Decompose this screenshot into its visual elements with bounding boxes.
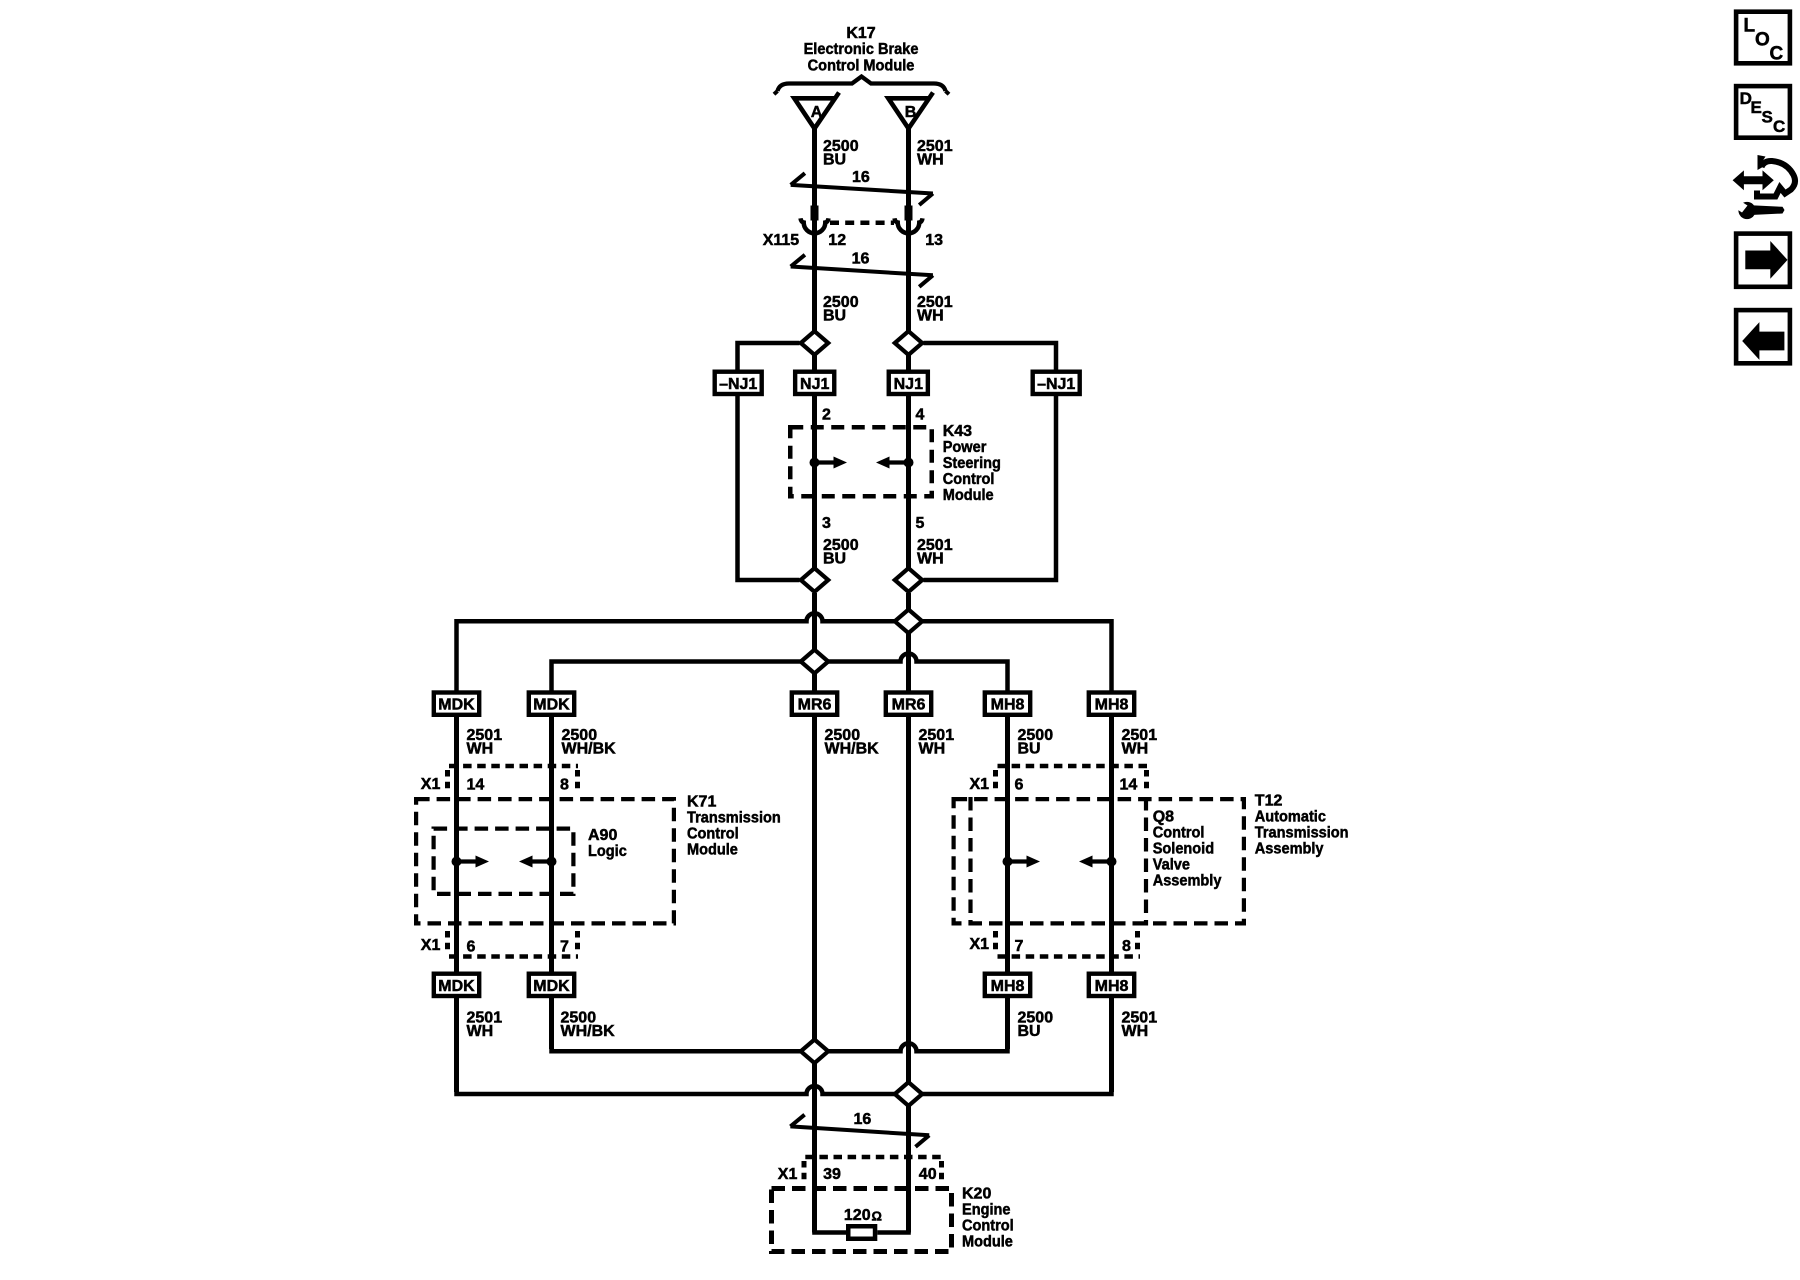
splice diamond 2500 upper (801, 331, 828, 355)
sidebar next-page arrow button (1736, 234, 1790, 287)
svg-text:4: 4 (916, 407, 925, 424)
svg-text:WH: WH (1122, 1023, 1149, 1040)
splice pack box -NJ1 (right) (1033, 372, 1080, 394)
wire 2501 from splice down through bus A to MR6 (906, 593, 911, 691)
svg-text:6: 6 (467, 939, 476, 956)
svg-text:Ω: Ω (872, 1209, 882, 1224)
svg-text:MDK: MDK (438, 697, 475, 714)
wire 2501 WH through NJ1 to K43 pin 4 (906, 331, 911, 568)
X115 female socket 13 (895, 218, 923, 233)
bus C (2500 net) horizontal with hop over 2501 (552, 998, 1008, 1051)
T12 connector X1 strip (bottom) (998, 954, 1141, 959)
svg-text:16: 16 (852, 251, 870, 268)
K20 X1 tick right (939, 1161, 944, 1181)
svg-text:Assembly: Assembly (1255, 840, 1324, 858)
svg-text:MDK: MDK (533, 978, 570, 995)
solenoid block Q8 left dashed edge (968, 797, 972, 926)
svg-text:WH: WH (1122, 741, 1149, 758)
svg-text:BU: BU (823, 550, 846, 567)
K71 connector X1 strip (top) (449, 764, 578, 769)
splice diamond 2500 lower (801, 568, 828, 592)
svg-text:WH: WH (919, 741, 946, 758)
bus A (2501 WH net) horizontal with hop over 2500 (457, 613, 1112, 691)
svg-text:7: 7 (560, 939, 569, 956)
svg-text:X1: X1 (421, 937, 441, 954)
T12 CAN driver arrow (left, on 2500) (1003, 857, 1013, 867)
T12 CAN driver arrow (right, on 2501) (1107, 857, 1117, 867)
module K71 dashed box (416, 799, 674, 923)
svg-text:MH8: MH8 (991, 978, 1025, 995)
wire 2500 BU through NJ1 to K43 pin 2 (812, 331, 817, 568)
svg-text:6: 6 (1015, 777, 1024, 794)
svg-text:BU: BU (823, 152, 846, 169)
brace for K17 module (778, 77, 946, 92)
junction diamond bus A at 2501 trunk (895, 610, 922, 634)
junction diamond bus B at 2500 trunk (801, 650, 828, 674)
solenoid block Q8 right dashed edge (1144, 797, 1148, 926)
svg-text:–NJ1: –NJ1 (1037, 376, 1075, 393)
svg-text:120: 120 (844, 1207, 871, 1224)
svg-text:MR6: MR6 (892, 697, 926, 714)
wire 2501 trunk from MR6 to K20 pin 40 (906, 717, 911, 1233)
svg-text:X115: X115 (763, 232, 800, 249)
harness code box MH8 (2500 BU to T12) (985, 693, 1030, 715)
X115 female socket 12 (801, 218, 829, 233)
svg-text:S: S (1762, 108, 1773, 127)
svg-text:8: 8 (1122, 938, 1131, 955)
wire 2500 BU from terminal A to X115 pin 12 (812, 128, 817, 206)
svg-text:16: 16 (852, 169, 870, 186)
svg-text:WH: WH (917, 308, 944, 325)
svg-text:8: 8 (560, 777, 569, 794)
svg-text:16: 16 (854, 1111, 872, 1128)
K71 X1 tick left (bottom) (445, 931, 450, 953)
splice pack box NJ1 (left) (795, 372, 834, 394)
wire 2501 WH into K71 pin 14 down to pin 6 (454, 717, 459, 973)
K71 connector X1 strip (bottom) (449, 954, 578, 959)
K20 X1 tick left (802, 1161, 807, 1181)
harness code box MDK (bottom left) (434, 974, 479, 996)
svg-text:39: 39 (823, 1166, 841, 1183)
K20 connector X1 strip (805, 1155, 942, 1160)
wire from right splice to -NJ1 branch (924, 343, 1057, 372)
wire right -NJ1 branch down to lower splice (924, 394, 1057, 580)
svg-text:12: 12 (828, 232, 846, 249)
splice pack box NJ1 (right) (889, 372, 928, 394)
bus B (2500 net) horizontal with hop over 2501 (552, 654, 1008, 692)
sidebar DESC button (1736, 86, 1790, 138)
T12 X1 tick right (top) (1144, 770, 1149, 792)
svg-text:7: 7 (1015, 938, 1024, 955)
wire 2501 WH from terminal B to X115 pin 13 (906, 128, 911, 206)
wire from left splice to -NJ1 branch (738, 343, 800, 372)
K71 CAN driver arrow (right, on 2500) (547, 857, 557, 867)
bus D (2501 WH net) horizontal with hop over 2500 (457, 998, 1112, 1094)
svg-text:X1: X1 (778, 1166, 798, 1183)
svg-text:MR6: MR6 (798, 697, 832, 714)
svg-text:WH: WH (917, 550, 944, 567)
svg-text:BU: BU (1018, 741, 1041, 758)
wire 2500 trunk from MR6 to K20 pin 39 (812, 717, 817, 1233)
svg-text:C: C (1770, 43, 1784, 64)
svg-text:Module: Module (962, 1233, 1013, 1251)
K71 CAN driver arrow (left, on 2501) (452, 857, 462, 867)
svg-text:A: A (811, 104, 823, 121)
svg-text:WH/BK: WH/BK (825, 741, 880, 758)
svg-text:WH: WH (467, 1023, 494, 1040)
splice diamond 2501 lower (895, 568, 922, 592)
module label K17 Electronic Brake Control Module (804, 25, 919, 75)
T12 X1 tick left (bottom) (993, 931, 998, 953)
svg-text:Module: Module (943, 486, 994, 504)
K71 X1 tick right (bottom) (575, 931, 580, 953)
harness code box MH8 (2501 WH to T12) (1089, 693, 1134, 715)
wire 2500 BU into T12 pin 6 down to pin 7 (1005, 717, 1010, 973)
svg-text:40: 40 (919, 1166, 937, 1183)
svg-text:2: 2 (822, 407, 831, 424)
svg-text:E: E (1751, 98, 1762, 117)
wire 2501 WH from bottom MDK to bus D (454, 998, 459, 1092)
svg-text:B: B (905, 104, 917, 121)
svg-text:K17: K17 (846, 25, 875, 42)
svg-text:WH/BK: WH/BK (561, 1023, 616, 1040)
X115 male pin 12 (811, 206, 819, 221)
svg-text:MDK: MDK (533, 697, 570, 714)
wire 2501 WH from X115 to splice (906, 220, 911, 331)
svg-text:Module: Module (687, 841, 738, 859)
svg-text:MH8: MH8 (1095, 697, 1129, 714)
wire 2500 WH/BK into K71 pin 8 down to pin 7 (549, 717, 554, 973)
module K43 dashed box (790, 427, 932, 496)
svg-text:WH/BK: WH/BK (562, 741, 617, 758)
wire 2501 WH from bottom MH8 to bus D (1109, 998, 1114, 1092)
wire 2501 WH into T12 pin 14 down to pin 8 (1109, 717, 1114, 973)
splice pack box -NJ1 (left) (715, 372, 762, 394)
wire 2500 BU from X115 to splice (812, 220, 817, 331)
svg-text:3: 3 (822, 515, 831, 532)
sidebar previous-page arrow button (1736, 310, 1790, 363)
svg-text:WH: WH (917, 152, 944, 169)
wire left -NJ1 branch down to lower splice (738, 394, 800, 580)
harness code box MR6 (2500 WH/BK trunk) (792, 693, 837, 715)
svg-text:MH8: MH8 (1095, 978, 1129, 995)
module T12 dashed box (954, 799, 1244, 923)
logic block A90 dashed box (434, 829, 574, 894)
svg-text:5: 5 (916, 515, 925, 532)
wire 2500 from splice down to bus B (812, 593, 817, 691)
twisted pair marker (upper) (791, 185, 933, 194)
twisted pair marker (lower) (790, 1126, 929, 1135)
sidebar navigation icon (arrows and wrench) (1733, 170, 1774, 190)
svg-text:L: L (1744, 15, 1756, 36)
svg-text:13: 13 (925, 232, 943, 249)
svg-text:MDK: MDK (438, 978, 475, 995)
X115 connector body dashed line (830, 221, 894, 226)
K43 CAN driver arrow (right, on 2501) (904, 458, 914, 468)
module K20 dashed box (772, 1189, 952, 1252)
twisted pair marker (second) (791, 267, 933, 276)
svg-text:BU: BU (823, 308, 846, 325)
svg-text:NJ1: NJ1 (894, 376, 923, 393)
svg-text:Assembly: Assembly (1153, 872, 1222, 890)
svg-text:X1: X1 (970, 936, 990, 953)
svg-text:MH8: MH8 (991, 697, 1025, 714)
svg-text:WH: WH (467, 741, 494, 758)
svg-text:NJ1: NJ1 (800, 376, 829, 393)
harness code box MH8 (bottom right) (1089, 974, 1134, 996)
sidebar LOC button (1736, 12, 1790, 64)
harness code box MDK (2500 WH/BK to K71) (529, 693, 574, 715)
svg-text:O: O (1755, 29, 1770, 50)
K43 CAN driver arrow (left, on 2500) (810, 458, 820, 468)
svg-text:Electronic Brake: Electronic Brake (804, 41, 919, 59)
svg-text:–NJ1: –NJ1 (719, 376, 757, 393)
svg-text:C: C (1773, 117, 1785, 136)
connector terminal B triangle (K17) (888, 93, 933, 129)
svg-text:Logic: Logic (588, 842, 627, 860)
harness code box MR6 (2501 WH trunk) (886, 693, 931, 715)
T12 connector X1 strip (top) (998, 764, 1151, 769)
connector terminal A triangle (K17) (794, 93, 839, 129)
T12 X1 tick right (bottom) (1135, 931, 1140, 953)
harness code box MDK (bottom, 2500 WH/BK) (529, 974, 574, 996)
T12 X1 tick left (top) (993, 770, 998, 792)
svg-text:X1: X1 (970, 776, 990, 793)
svg-text:X1: X1 (421, 776, 441, 793)
wire 2500 WH/BK from bottom MDK to bus C (549, 998, 554, 1049)
K71 X1 tick right (top) (575, 770, 580, 792)
terminating resistor 120 ohm (812, 1230, 846, 1235)
splice diamond 2501 upper (895, 331, 922, 355)
svg-text:Control Module: Control Module (808, 57, 915, 75)
svg-text:BU: BU (1018, 1023, 1041, 1040)
junction diamond bus D at 2501 trunk (895, 1082, 922, 1106)
svg-text:14: 14 (467, 777, 485, 794)
svg-text:14: 14 (1120, 777, 1138, 794)
harness code box MH8 (bottom, 2500 BU) (985, 974, 1030, 996)
junction diamond bus C at 2500 trunk (801, 1040, 828, 1064)
harness code box MDK (2501 WH to K71) (434, 693, 479, 715)
wire 2500 BU from bottom MH8 to bus C (1005, 998, 1010, 1049)
K71 X1 tick left (top) (445, 770, 450, 792)
X115 male pin 13 (905, 206, 913, 221)
